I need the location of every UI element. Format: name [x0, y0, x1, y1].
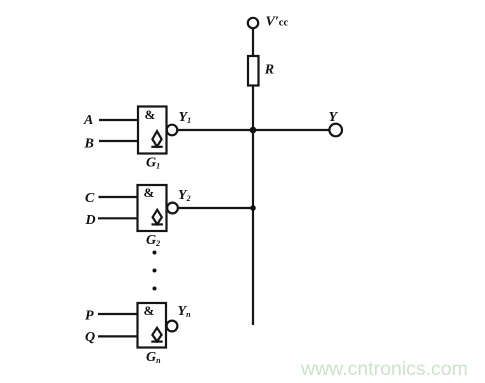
- svg-text:&: &: [144, 185, 155, 200]
- svg-text:&: &: [144, 303, 155, 318]
- wire input C: [99, 196, 138, 198]
- wire node 1 to output terminal Y: [253, 129, 329, 131]
- svg-text:C: C: [85, 191, 95, 206]
- wire input Q: [98, 335, 138, 337]
- svg-text:V′cc: V′cc: [266, 15, 289, 30]
- gate Gn output bubble: [167, 321, 178, 332]
- svg-text:Q: Q: [85, 330, 95, 345]
- svg-text:B: B: [84, 136, 94, 151]
- svg-text:R: R: [264, 63, 274, 78]
- ellipsis dot 2: [153, 269, 157, 273]
- wire gate G1 output to node 1: [177, 129, 253, 131]
- svg-text:www.cntronics.com: www.cntronics.com: [300, 358, 468, 380]
- ellipsis dot 3: [153, 287, 157, 291]
- gate G1 output bubble: [167, 125, 178, 136]
- svg-text:G1: G1: [146, 156, 160, 171]
- NAND gate G1 box: [138, 107, 167, 154]
- svg-text:A: A: [83, 113, 93, 128]
- svg-text:&: &: [145, 107, 156, 122]
- svg-text:Y: Y: [329, 110, 339, 125]
- wire input A: [99, 119, 138, 121]
- gate G2 open-collector diamond: [153, 210, 162, 224]
- svg-text:Yn: Yn: [178, 304, 192, 319]
- gate G2 open-collector underline: [152, 223, 163, 225]
- output terminal Y: [329, 124, 342, 137]
- gate G1 open-collector diamond: [152, 131, 161, 146]
- wire input P: [98, 313, 138, 315]
- svg-text:Y2: Y2: [178, 188, 191, 203]
- ellipsis dot 1: [153, 251, 157, 255]
- junction node 2 (bus / Y2): [250, 205, 256, 211]
- resistor R: [248, 56, 259, 86]
- svg-text:D: D: [85, 213, 96, 228]
- NAND gate G2 box: [138, 185, 167, 231]
- svg-text:Gn: Gn: [146, 350, 161, 365]
- svg-text:Y1: Y1: [179, 110, 192, 125]
- junction node 1 (bus / Y1): [250, 127, 257, 134]
- wire: wired-AND bus (resistor to bottom): [252, 86, 254, 326]
- wire gate G2 output to node 2: [178, 207, 253, 209]
- NAND gate Gn box: [138, 303, 167, 348]
- gate Gn open-collector underline: [151, 341, 162, 343]
- gate Gn open-collector diamond: [152, 328, 161, 342]
- svg-text:G2: G2: [146, 233, 160, 248]
- wire Vcc terminal to resistor R: [252, 28, 254, 56]
- Vcc terminal: [248, 18, 258, 28]
- gate G2 output bubble: [167, 203, 178, 214]
- wire input D: [98, 217, 138, 219]
- gate G1 open-collector underline: [151, 146, 162, 148]
- wire input B: [99, 140, 138, 142]
- svg-text:P: P: [85, 308, 94, 323]
